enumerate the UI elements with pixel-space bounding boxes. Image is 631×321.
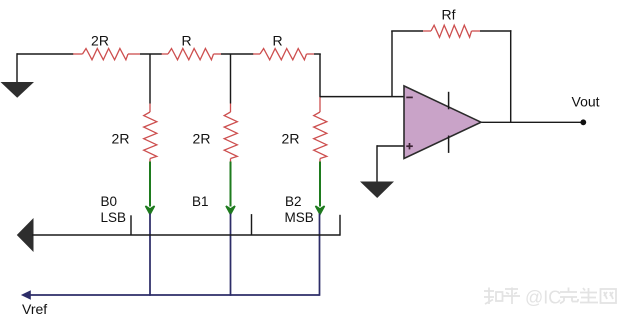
svg-text:B0: B0 — [101, 194, 118, 209]
svg-text:Vout: Vout — [572, 94, 600, 110]
svg-text:R: R — [181, 33, 191, 49]
svg-text:2R: 2R — [193, 131, 211, 147]
svg-text:LSB: LSB — [101, 210, 127, 225]
svg-text:2R: 2R — [112, 131, 130, 147]
svg-text:2R: 2R — [91, 33, 109, 49]
svg-text:@IC: @IC — [525, 288, 561, 308]
svg-text:Vref: Vref — [22, 301, 47, 317]
svg-text:B1: B1 — [192, 194, 209, 209]
svg-text:2R: 2R — [282, 131, 300, 147]
svg-text:R: R — [272, 33, 282, 49]
svg-text:B2: B2 — [285, 194, 302, 209]
svg-text:MSB: MSB — [285, 210, 314, 225]
svg-text:Rf: Rf — [442, 7, 456, 23]
